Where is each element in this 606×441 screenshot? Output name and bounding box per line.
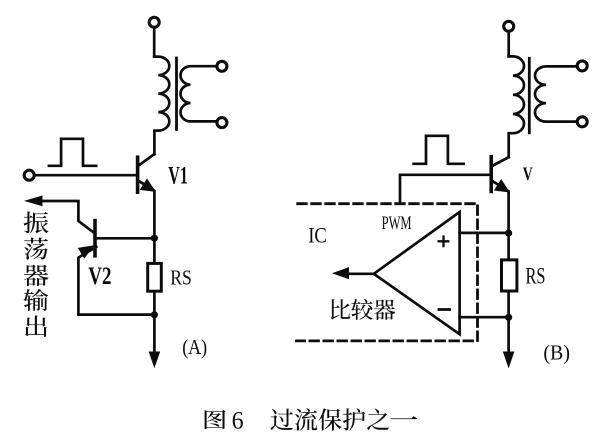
caption char 流 <box>295 408 317 430</box>
label oscillator-output char 荡 <box>24 238 48 260</box>
label comparator char 较 <box>351 299 372 320</box>
transistor V2 base bar <box>93 221 97 256</box>
label oscillator-output char 振 <box>24 212 49 234</box>
terminal circle top primary (B) <box>504 21 514 31</box>
comparator minus input symbol <box>439 308 450 311</box>
node junction RS bottom (A) <box>151 311 158 318</box>
label oscillator-output char 输 <box>23 289 48 311</box>
transistor V1 collector wire <box>138 154 154 166</box>
input terminal circle (A) <box>24 170 34 180</box>
svg-text:RS: RS <box>170 265 192 289</box>
wire primary top lead <box>153 28 156 56</box>
terminal circle secondary bottom (B) <box>577 117 587 127</box>
transformer T2 core <box>528 58 531 133</box>
svg-text:6: 6 <box>232 407 244 434</box>
svg-text:V2: V2 <box>88 263 111 290</box>
comparator output wire <box>346 272 374 275</box>
transformer T primary winding (left) <box>154 57 169 154</box>
resistor RS (A) body <box>148 263 162 291</box>
terminal circle top-left primary <box>149 17 159 27</box>
label oscillator-output char 器 <box>24 265 49 286</box>
caption char 过 <box>270 409 292 431</box>
wire primary top lead (B) <box>507 32 510 57</box>
transistor V2 emitter wire <box>78 247 96 315</box>
terminal circle secondary bottom <box>217 118 227 128</box>
svg-text:PWM: PWM <box>382 213 412 234</box>
svg-text:(B): (B) <box>543 340 570 364</box>
transistor V1 base bar <box>136 157 140 192</box>
svg-text:(A): (A) <box>182 335 207 359</box>
base wire from input terminal to V1 <box>36 174 136 177</box>
ground arrow (A) <box>149 352 159 367</box>
plus input wire to RS top node <box>460 232 509 235</box>
transistor V base bar <box>489 157 493 192</box>
transistor V1 emitter arrow <box>141 179 155 191</box>
svg-text:RS: RS <box>526 264 546 289</box>
transformer T2 secondary winding <box>535 66 576 121</box>
comparator U1 triangle <box>374 212 460 334</box>
transformer T core <box>175 58 178 130</box>
transistor V2 base wire to node <box>97 237 155 240</box>
transistor V2 collector wire and oscillator line <box>40 201 94 233</box>
transistor V emitter arrow <box>495 180 509 192</box>
transistor V emitter wire <box>492 181 509 233</box>
wire node to RS (B) <box>507 233 510 352</box>
transistor V1 emitter wire <box>138 181 154 238</box>
comparator plus input symbol <box>439 237 449 247</box>
caption char 之 <box>367 408 389 430</box>
node junction V1 emitter / RS top <box>151 235 158 242</box>
pulse waveform (B) <box>414 136 464 164</box>
svg-text:V1: V1 <box>168 163 188 190</box>
label comparator char 比 <box>331 299 350 319</box>
transistor V2 emitter arrow (PNP) <box>79 246 93 258</box>
minus input wire to RS bottom node <box>460 316 509 319</box>
label oscillator-output char 出 <box>25 315 47 336</box>
caption char 保 <box>319 408 342 430</box>
oscillator output arrow <box>26 196 42 205</box>
transistor V collector wire <box>492 157 509 166</box>
transformer T2 primary winding <box>509 56 524 157</box>
svg-text:V: V <box>523 165 533 185</box>
ground arrow (B) <box>504 352 514 367</box>
resistor RS (B) body <box>502 260 517 291</box>
wire V2 emitter to RS bottom node <box>78 313 154 316</box>
base wire and PWM drive line <box>400 175 490 203</box>
node junction RS top (B) <box>505 230 512 237</box>
wire node to RS (A) <box>153 238 156 352</box>
node junction RS bottom (B) <box>505 314 512 321</box>
caption char 一 <box>391 416 418 419</box>
transformer T secondary winding (right) <box>181 66 216 121</box>
label comparator char 器 <box>374 299 395 319</box>
svg-text:IC: IC <box>308 223 327 248</box>
IC dashed box <box>297 204 478 341</box>
terminal circle secondary top <box>217 61 227 71</box>
caption char 图 <box>205 410 226 429</box>
terminal circle secondary top (B) <box>577 61 587 71</box>
pulse waveform (A) <box>49 139 96 166</box>
caption char 护 <box>343 408 365 430</box>
comparator output arrow <box>334 268 349 279</box>
